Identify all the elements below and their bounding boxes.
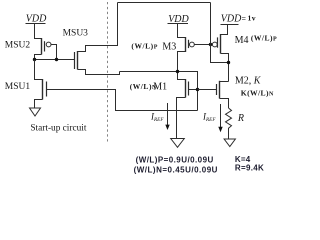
label (W/L)P M3 bbox=[131, 41, 176, 52]
wire MSU2 gate to node A bbox=[51, 45, 57, 60]
svg-text:Start-up circuit: Start-up circuit bbox=[30, 123, 86, 133]
label MSU1 bbox=[5, 82, 31, 92]
junction node B bbox=[176, 70, 179, 73]
svg-text:(W/L)P: (W/L)P bbox=[251, 34, 277, 43]
label MSU3 bbox=[63, 29, 89, 39]
wire MSU3 drain to top rail bbox=[78, 3, 118, 52]
wire M4 drain / M2 drain bbox=[221, 54, 229, 82]
wire node B horizontal to NMOS gates bbox=[120, 72, 198, 111]
wire M2 source to resistor bbox=[220, 99, 229, 109]
ground under R bbox=[224, 139, 235, 147]
wire MSU1 gate to NMOS bias node bbox=[47, 90, 198, 111]
current arrow IREF (left) bbox=[165, 103, 169, 130]
junction PMOS gate node bbox=[209, 43, 212, 46]
transistor M4 (PMOS) bbox=[212, 34, 220, 54]
svg-text:VDD: VDD bbox=[26, 14, 47, 25]
label R=9.4K bbox=[235, 163, 264, 172]
ground under M1 bbox=[171, 139, 185, 148]
power VDD1 rail bar bbox=[26, 23, 46, 25]
svg-text:M3: M3 bbox=[162, 41, 176, 52]
power VDD2 label bbox=[168, 14, 189, 25]
transistor M3 (PMOS) bbox=[186, 37, 195, 52]
transistor MSU2 (PMOS) bbox=[42, 38, 51, 55]
transistor M1 (NMOS) bbox=[186, 79, 189, 98]
wire MSU3 source to node B bbox=[78, 70, 120, 75]
label K=4 bbox=[235, 155, 251, 164]
junction node A1 bbox=[33, 58, 36, 61]
wire node B : M3 drain / M1 drain bbox=[178, 52, 186, 80]
wire MSU1 drain bbox=[35, 60, 43, 80]
svg-text:R=9.4K: R=9.4K bbox=[235, 163, 264, 172]
label K(W/L)N bbox=[241, 89, 274, 98]
svg-text:M2, K: M2, K bbox=[235, 76, 262, 87]
label M2, K bbox=[235, 76, 262, 87]
wire M1 gate lead bbox=[189, 89, 198, 91]
ground under MSU1 bbox=[30, 108, 41, 116]
wire MSU1 source bbox=[35, 100, 43, 109]
wire M3 source to VDD2 bbox=[178, 24, 186, 38]
wire PMOS gate bus bbox=[194, 44, 213, 46]
label IREF (right) bbox=[202, 112, 216, 124]
wire M4 source to VDD3 bbox=[221, 25, 228, 35]
resistor R bbox=[226, 108, 232, 139]
wire MSU2 source to VDD1 bbox=[35, 24, 42, 39]
svg-text:R: R bbox=[237, 113, 244, 124]
wire M1 source to ground bbox=[177, 98, 186, 139]
svg-text:MSU1: MSU1 bbox=[5, 82, 31, 92]
svg-text:IREF: IREF bbox=[202, 112, 216, 124]
dashed boundary line bbox=[107, 2, 109, 142]
svg-text:(W/L)N=0.45U/0.09U: (W/L)N=0.45U/0.09U bbox=[134, 165, 218, 174]
junction NMOS gate node bbox=[196, 88, 199, 91]
svg-text:IREF: IREF bbox=[150, 112, 164, 124]
wire MSU2 drain to node A bbox=[35, 55, 42, 60]
svg-text:MSU3: MSU3 bbox=[63, 29, 89, 39]
junction node A2 bbox=[55, 58, 58, 61]
label (W/L)N M1 bbox=[130, 82, 167, 93]
transistor M2 (NMOS) bbox=[217, 81, 220, 99]
svg-text:MSU2: MSU2 bbox=[5, 41, 31, 51]
wire M2 gate lead bbox=[198, 89, 217, 91]
svg-text:1v: 1v bbox=[248, 14, 256, 23]
power VDD2 rail bar bbox=[168, 23, 189, 25]
power VDD3 rail bar bbox=[221, 24, 239, 26]
svg-text:K(W/L)N: K(W/L)N bbox=[241, 89, 274, 98]
svg-text:M1: M1 bbox=[153, 82, 167, 93]
svg-text:VDD: VDD bbox=[221, 13, 242, 24]
label sizing line 2 bbox=[134, 165, 218, 174]
svg-text:(W/L)P=0.9U/0.09U: (W/L)P=0.9U/0.09U bbox=[136, 155, 214, 164]
label M4 (W/L)P bbox=[235, 34, 278, 47]
wire M2 drain lead bbox=[220, 81, 229, 83]
transistor MSU1 (NMOS) bbox=[43, 79, 47, 100]
label MSU2 bbox=[5, 41, 31, 51]
power VDD1 label bbox=[26, 14, 47, 25]
power VDD3 label bbox=[221, 13, 256, 24]
svg-text:=: = bbox=[242, 14, 246, 23]
current arrow IREF (right) bbox=[218, 104, 222, 132]
label Start-up circuit bbox=[30, 123, 86, 133]
wire node row A bbox=[35, 59, 75, 61]
wire top rail bbox=[118, 2, 211, 4]
junction M4 drain node bbox=[227, 61, 230, 64]
transistor MSU3 (NMOS) bbox=[75, 51, 78, 70]
svg-text:M4: M4 bbox=[235, 35, 249, 46]
svg-text:(W/L)P: (W/L)P bbox=[131, 41, 158, 50]
label IREF (left) bbox=[150, 112, 164, 124]
wire M4 diode connection (top rail down to M4 drain) bbox=[211, 3, 229, 63]
label sizing line 1 bbox=[136, 155, 214, 164]
label R bbox=[237, 113, 244, 124]
